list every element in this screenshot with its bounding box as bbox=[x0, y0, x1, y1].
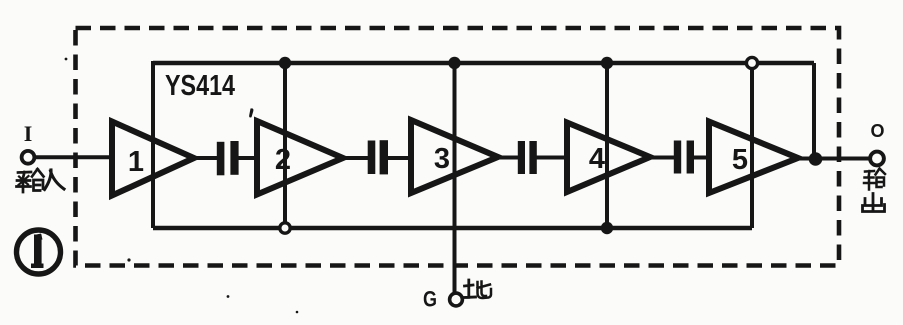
wire bottom rail bbox=[153, 226, 752, 231]
label 输入 (input) bbox=[17, 169, 65, 192]
open junction on top rail above amp5 bbox=[746, 57, 757, 68]
wire amp5 vertical bbox=[750, 68, 754, 228]
junction dot top rail amp2 bbox=[279, 57, 291, 69]
入 bbox=[45, 170, 65, 190]
wire C3 to amp4 bbox=[537, 156, 569, 160]
label 地 (ground) bbox=[463, 280, 491, 298]
wire amp4 to C4 bbox=[649, 156, 674, 160]
wire C4 to amp5 bbox=[694, 156, 710, 160]
wire amp4 vertical bbox=[605, 63, 609, 228]
wire amp1 to C1 bbox=[193, 156, 217, 160]
俞 part of 输 bbox=[32, 169, 44, 191]
wire C2 to amp3 bbox=[388, 156, 412, 160]
junction dot output node bbox=[809, 152, 823, 166]
wire amp3 ground vertical bbox=[453, 63, 457, 293]
俞 part of 输 bbox=[876, 169, 886, 188]
wire amp5 to output terminal bbox=[797, 157, 870, 161]
svg-text:O: O bbox=[870, 121, 884, 141]
stray scan speckles bbox=[249, 108, 253, 117]
op-amp 1 bbox=[112, 122, 194, 196]
svg-text:3: 3 bbox=[434, 143, 450, 175]
junction dot top rail amp3 bbox=[448, 57, 460, 69]
wire C1 to amp2 bbox=[238, 156, 258, 160]
svg-text:4: 4 bbox=[589, 143, 605, 175]
op-amp 5 bbox=[709, 122, 798, 194]
wire right drop from rail to output node bbox=[812, 63, 816, 159]
车 radical of 输 bbox=[17, 172, 32, 192]
wire top rail bbox=[153, 61, 814, 66]
open junction on bottom rail below amp2 bbox=[280, 223, 290, 233]
op-amp 4 bbox=[567, 123, 650, 193]
svg-text:YS414: YS414 bbox=[165, 70, 235, 102]
出 bbox=[863, 194, 885, 212]
op-amp 2 bbox=[257, 121, 343, 195]
wire amp2 vertical bbox=[283, 63, 287, 223]
ground terminal circle bbox=[450, 293, 463, 306]
svg-text:1: 1 bbox=[128, 146, 144, 178]
wire amp2 to C2 bbox=[343, 156, 368, 160]
车 radical of 输 bbox=[864, 171, 875, 190]
也 part of 地 bbox=[478, 282, 492, 299]
wire amp1 vertical bbox=[151, 61, 155, 228]
junction dot top rail amp4 bbox=[601, 57, 613, 69]
wire input to amp1 bbox=[34, 155, 113, 159]
svg-text:2: 2 bbox=[275, 144, 291, 176]
wire amp3 to C3 bbox=[497, 156, 518, 160]
input terminal circle bbox=[22, 151, 35, 164]
capacitor C2 bbox=[368, 140, 388, 174]
capacitor C4 bbox=[674, 141, 694, 174]
junction dot bottom rail amp4 bbox=[601, 222, 613, 234]
capacitor C3 bbox=[518, 141, 537, 174]
svg-text:I: I bbox=[24, 121, 33, 146]
output terminal circle bbox=[870, 152, 884, 166]
dashed enclosure border of IC package bbox=[76, 28, 840, 266]
label 输出 (output) bbox=[863, 169, 886, 212]
svg-text:5: 5 bbox=[732, 144, 748, 176]
capacitor C1 bbox=[217, 141, 239, 175]
土 radical of 地 bbox=[463, 280, 476, 298]
svg-text:G: G bbox=[423, 287, 437, 312]
figure number badge: circled 1 bbox=[17, 230, 61, 274]
op-amp 3 bbox=[411, 120, 498, 193]
